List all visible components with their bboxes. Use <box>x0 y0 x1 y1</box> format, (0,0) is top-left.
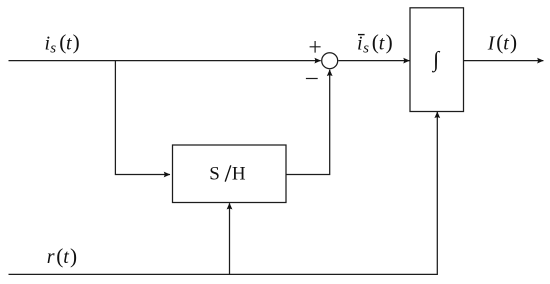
svg-text:s: s <box>50 41 56 57</box>
svg-text:S: S <box>209 164 220 185</box>
label r(t) <box>47 244 77 268</box>
svg-text:t: t <box>379 32 385 54</box>
wire: summing junction to integrator <box>338 60 409 62</box>
summing junction circle <box>322 53 338 69</box>
wire: output I(t) <box>464 60 544 62</box>
svg-text:t: t <box>63 246 69 268</box>
svg-text:): ) <box>73 30 80 54</box>
svg-text:s: s <box>363 41 369 57</box>
svg-text:): ) <box>510 30 517 54</box>
wire: S/H output up to summing junction <box>286 70 330 175</box>
wire: branch up from bottom wire to S/H <box>229 203 231 274</box>
label I(t) <box>487 30 517 55</box>
label ibar_s(t) <box>357 30 393 57</box>
integrator block U1 <box>410 8 464 112</box>
S/H block <box>173 145 287 203</box>
svg-text:I: I <box>487 33 496 55</box>
svg-text:): ) <box>386 30 393 54</box>
wire: r(t) bottom horizontal <box>9 112 438 275</box>
plus sign <box>310 41 321 53</box>
svg-text:i: i <box>357 32 363 54</box>
svg-text:t: t <box>503 33 509 55</box>
svg-text:r: r <box>47 246 55 268</box>
minus sign <box>306 78 318 80</box>
wire: i_s(t) input top horizontal <box>9 60 321 62</box>
svg-text:i: i <box>45 32 51 54</box>
wire: branch down from top wire to S/H <box>115 61 170 175</box>
svg-text:∫: ∫ <box>431 46 441 72</box>
label i_s(t) <box>45 30 80 57</box>
svg-text:): ) <box>70 244 77 268</box>
svg-text:H: H <box>232 164 246 185</box>
svg-text:t: t <box>66 32 72 54</box>
